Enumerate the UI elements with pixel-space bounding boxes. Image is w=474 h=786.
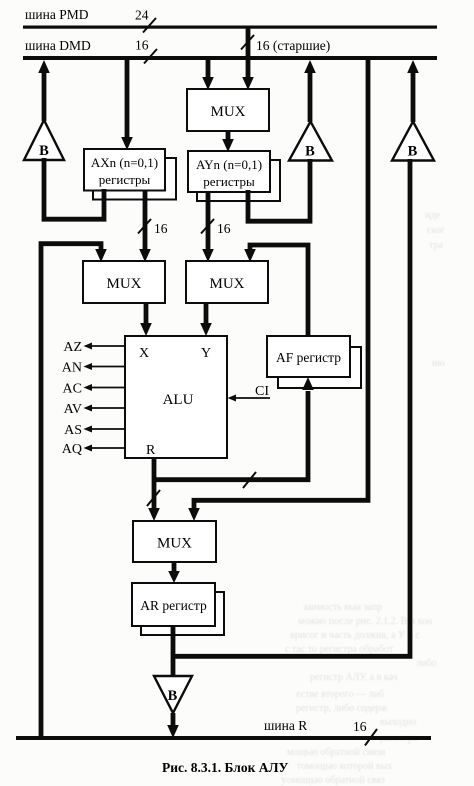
flag arrow AZ xyxy=(92,345,125,347)
node: шина PMD bus xyxy=(23,26,437,29)
svg-text:16: 16 xyxy=(217,221,231,236)
svg-text:тра: тра xyxy=(429,240,443,251)
wire B1 output to DMD xyxy=(42,73,47,121)
svg-text:AZ: AZ xyxy=(63,340,82,355)
svg-text:R: R xyxy=(146,443,156,458)
ALU U4 xyxy=(125,336,227,458)
flag arrow AV xyxy=(92,407,125,409)
svg-text:Рис. 8.3.1. Блок АЛУ: Рис. 8.3.1. Блок АЛУ xyxy=(162,760,289,775)
svg-text:ског: ског xyxy=(427,225,445,236)
svg-text:мощью обратной связи: мощью обратной связи xyxy=(287,747,386,758)
buffer B1 (AXn to DMD) xyxy=(24,120,64,160)
svg-text:можно после рис. 2.1.2. В и ко: можно после рис. 2.1.2. В и кон xyxy=(298,616,433,627)
svg-text:естве второго — либ: естве второго — либ xyxy=(296,689,384,700)
register file AXn shadow xyxy=(93,158,176,200)
buffer B2 (AYn to DMD) xyxy=(289,122,332,161)
wire CI input, arrow xyxy=(236,397,270,399)
node: шина R bus xyxy=(16,736,431,740)
svg-text:либо: либо xyxy=(416,658,436,669)
svg-text:AV: AV xyxy=(64,402,82,417)
svg-text:AF регистр: AF регистр xyxy=(276,350,341,365)
register file AYn xyxy=(188,151,270,192)
flag arrow AC xyxy=(92,387,125,389)
mux U3 (Y-operand MUX) xyxy=(186,261,268,303)
svg-text:AS: AS xyxy=(64,423,82,438)
svg-text:шина PMD: шина PMD xyxy=(25,7,89,22)
svg-text:заимость выи запр: заимость выи запр xyxy=(303,602,382,613)
wire MUX U2 to ALU X, arrow xyxy=(144,303,149,324)
wire PMD to MUX U1, arrow xyxy=(246,27,251,78)
wire DMD to MUX U5, arrow xyxy=(194,58,368,509)
svg-text:B: B xyxy=(408,144,418,160)
slash 16 R xyxy=(365,729,377,746)
svg-text:регистры: регистры xyxy=(203,174,255,189)
wire AR output to B4 xyxy=(171,626,176,677)
flag arrow AQ xyxy=(92,447,125,449)
svg-text:AQ: AQ xyxy=(62,442,82,457)
register file AYn shadow xyxy=(197,160,280,201)
wire ALU R output to MUX U5, arrow, slash xyxy=(152,458,157,509)
svg-text:томощью которой вых: томощью которой вых xyxy=(297,761,392,772)
register AR shadow xyxy=(141,592,224,635)
wire DMD to AXn, arrow xyxy=(125,60,130,138)
buffer B4 (AR to шина R) xyxy=(154,676,192,713)
flag arrow AN xyxy=(92,366,125,368)
register file AXn xyxy=(84,149,165,191)
mux U2 (X-operand MUX) xyxy=(83,261,165,303)
wire AR feedback to B3 xyxy=(173,159,410,656)
wire AYn output loop to B2 xyxy=(248,159,310,221)
svg-text:врисог и часть должна, а У и с: врисог и часть должна, а У и с xyxy=(290,630,420,641)
svg-text:MUX: MUX xyxy=(157,536,192,552)
svg-text:B: B xyxy=(305,144,315,160)
wire MUX U1 to AYn, arrow xyxy=(226,131,231,140)
slash 16 старшие xyxy=(241,35,254,50)
svg-text:AN: AN xyxy=(62,361,82,376)
svg-text:Y: Y xyxy=(201,346,211,361)
register AF xyxy=(267,336,350,377)
svg-text:регистры: регистры xyxy=(99,172,151,187)
svg-text:регистр, либо содерж: регистр, либо содерж xyxy=(296,703,387,714)
flag arrow AS xyxy=(92,428,125,430)
svg-text:B: B xyxy=(168,688,178,704)
mux U1 (top MUX) xyxy=(187,89,269,131)
buffer B3 (AR to DMD) xyxy=(392,122,434,161)
svg-text:MUX: MUX xyxy=(210,104,245,120)
node: шина DMD bus xyxy=(23,56,437,60)
svg-text:16: 16 xyxy=(135,38,149,53)
wire B4 output to шина R, arrow xyxy=(171,713,176,726)
svg-text:шина DMD: шина DMD xyxy=(25,38,91,53)
svg-text:X: X xyxy=(139,346,149,361)
wire AF output to MUX U3, arrow xyxy=(250,245,308,336)
svg-text:16: 16 xyxy=(353,719,367,734)
wire шина R feedback to MUX U2, arrow xyxy=(41,244,101,738)
register AR xyxy=(132,583,215,626)
wire MUX U5 to AR, arrow xyxy=(172,562,177,572)
svg-text:выходно: выходно xyxy=(380,717,416,728)
wire R result to AF, arrow, slash xyxy=(154,391,308,480)
svg-text:регистр АЛУ, а в кач: регистр АЛУ, а в кач xyxy=(310,672,398,683)
svg-text:с тас то регистра обработ: с тас то регистра обработ xyxy=(285,644,394,655)
bleed-through ghost text xyxy=(281,210,445,786)
svg-text:16: 16 xyxy=(154,221,168,236)
wire DMD to MUX U1, arrow xyxy=(206,60,211,78)
svg-text:AC: AC xyxy=(63,382,82,397)
svg-text:AYn (n=0,1): AYn (n=0,1) xyxy=(196,157,262,172)
svg-text:CI: CI xyxy=(255,384,269,399)
wire B3 output to DMD xyxy=(411,73,416,122)
svg-text:MUX: MUX xyxy=(209,276,244,292)
slash 16 xyxy=(144,49,157,64)
svg-text:омощью обратной связ: омощью обратной связ xyxy=(287,775,385,786)
svg-text:B: B xyxy=(39,143,49,159)
svg-text:16 (старшие): 16 (старшие) xyxy=(256,38,330,53)
svg-text:шина R: шина R xyxy=(264,718,307,733)
mux U5 (result MUX) xyxy=(133,521,216,562)
wire MUX U3 to ALU Y, arrow xyxy=(204,303,209,324)
register AF shadow xyxy=(278,347,361,388)
wire B2 output to DMD xyxy=(308,73,313,122)
svg-text:ию: ию xyxy=(432,358,445,369)
wire AXn to MUX U2, arrow, 16 xyxy=(143,190,148,250)
svg-text:MUX: MUX xyxy=(106,276,141,292)
wire AXn output loop to B1 xyxy=(44,158,104,219)
svg-text:24: 24 xyxy=(135,8,149,23)
svg-text:AXn (n=0,1): AXn (n=0,1) xyxy=(91,155,158,170)
svg-text:AR регистр: AR регистр xyxy=(140,598,207,613)
svg-text:ALU: ALU xyxy=(163,392,194,408)
wire AYn to MUX U3, arrow, 16 xyxy=(206,192,211,250)
slash 24 xyxy=(143,18,156,33)
svg-text:иде: иде xyxy=(425,210,440,221)
